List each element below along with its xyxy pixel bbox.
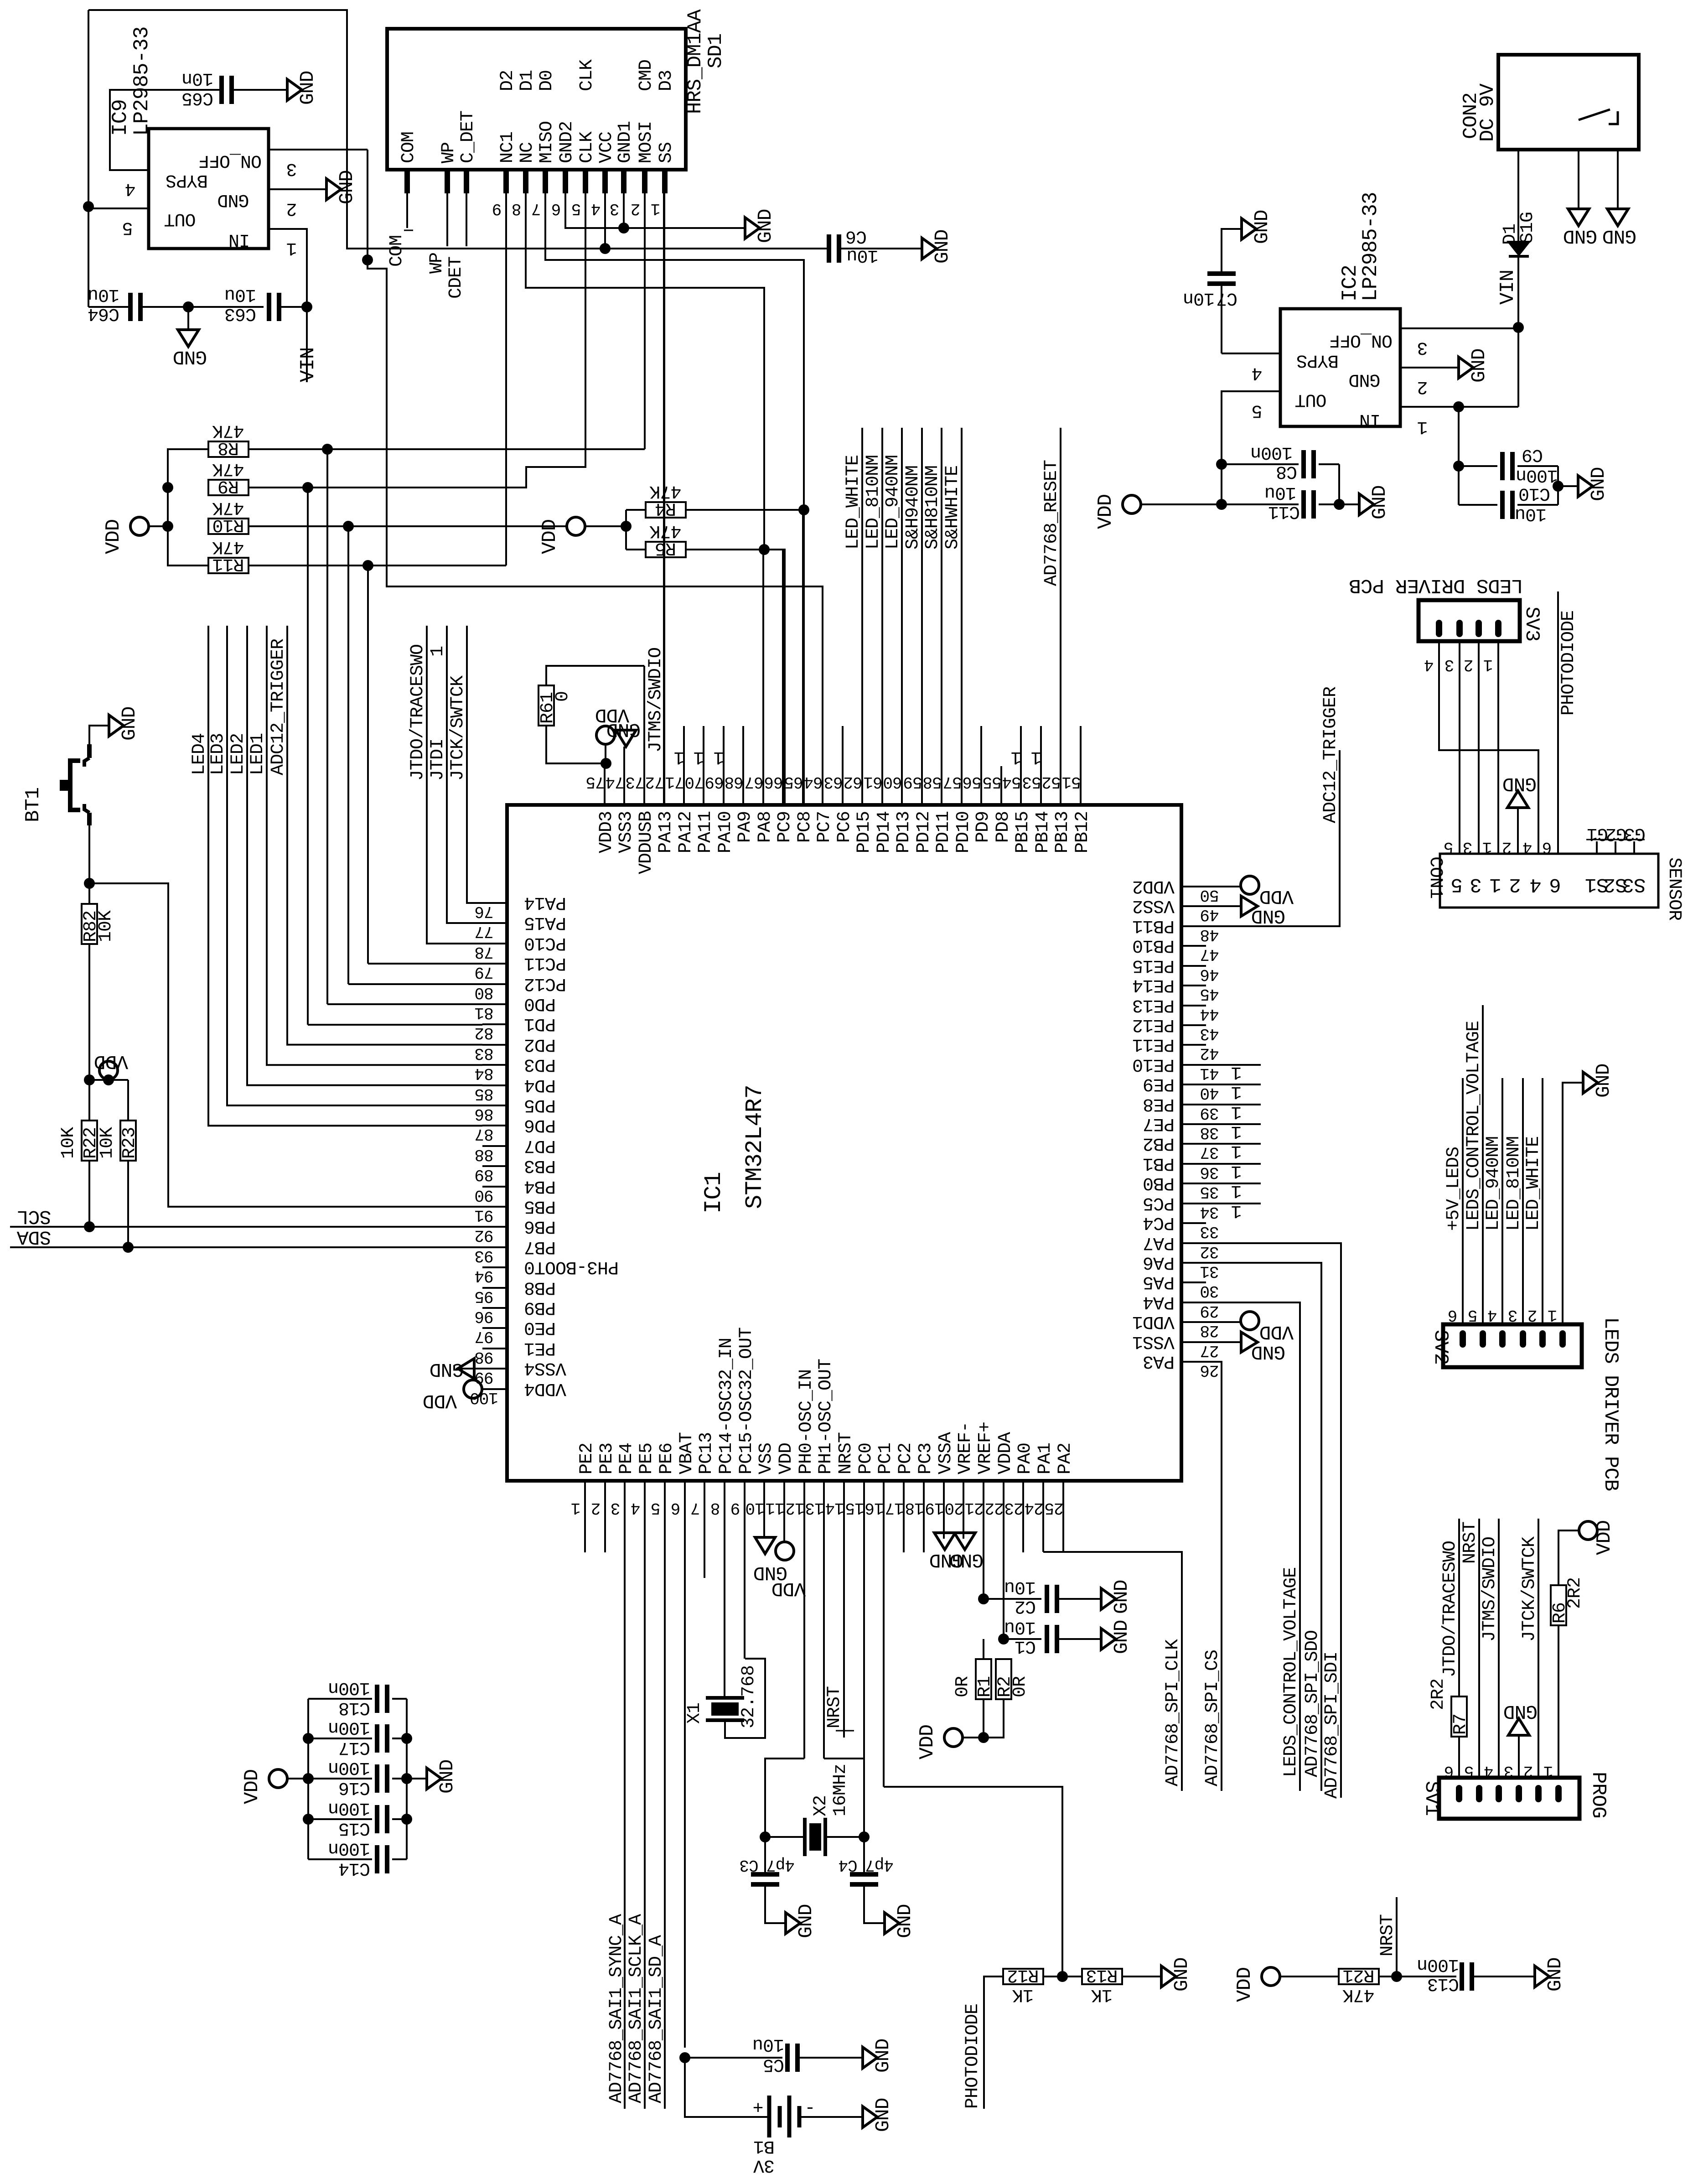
net label NRST (R21) — [1396, 1897, 1398, 1976]
wire IC1 pin 52 stub — [1060, 428, 1061, 805]
ground C14-C18 — [407, 1778, 427, 1779]
ground pin74 — [616, 730, 636, 747]
svg-text:PC13: PC13 — [696, 1432, 717, 1474]
resistor R5 47K — [626, 549, 646, 550]
svg-text:67: 67 — [745, 773, 763, 791]
svg-text:VDD: VDD — [1593, 1520, 1616, 1555]
wire IC1 pin 26 stub — [1181, 1361, 1206, 1363]
svg-text:VDD: VDD — [1260, 1321, 1294, 1343]
svg-text:4p7: 4p7 — [766, 1856, 795, 1874]
svg-text:30: 30 — [1200, 1281, 1219, 1300]
svg-text:PB2: PB2 — [1143, 1133, 1175, 1153]
resistor R11 47K — [208, 558, 249, 573]
svg-text:10u: 10u — [88, 284, 119, 305]
svg-text:16: 16 — [865, 1499, 884, 1517]
svg-text:1: 1 — [714, 747, 724, 767]
CON2 center pin wire — [1517, 150, 1519, 241]
svg-text:VDD: VDD — [1260, 885, 1294, 908]
svg-text:5: 5 — [122, 217, 133, 238]
svg-text:PD14: PD14 — [874, 811, 895, 853]
svg-text:56: 56 — [963, 773, 981, 791]
wire IC1 pin 36 stub — [1181, 1163, 1261, 1165]
junction R23/SDA — [123, 1242, 134, 1253]
svg-text:1: 1 — [1484, 655, 1493, 674]
svg-text:1: 1 — [1483, 838, 1492, 856]
IC9 pin 1 wire — [269, 229, 307, 307]
svg-text:VIN: VIN — [297, 348, 320, 382]
capacitor C64 10u — [88, 306, 130, 308]
wire IC1 pin 46 stub — [1181, 965, 1206, 967]
svg-text:88: 88 — [475, 1145, 493, 1164]
svg-text:10u: 10u — [1004, 1577, 1036, 1597]
wire IC1 pin 70 stub — [703, 726, 704, 805]
svg-text:60: 60 — [883, 773, 902, 791]
svg-text:D3: D3 — [656, 70, 677, 91]
power VDD pin11 — [776, 1542, 794, 1560]
wire IC1 pin 63 stub — [842, 726, 844, 805]
svg-text:C65: C65 — [182, 88, 213, 108]
ground VSS pin10 — [755, 1537, 775, 1554]
resistor R6 2R2 — [1551, 1585, 1566, 1625]
junction X2 right — [859, 1831, 870, 1842]
svg-text:47K: 47K — [212, 536, 244, 557]
svg-text:VDD4: VDD4 — [524, 1378, 566, 1399]
svg-text:63: 63 — [824, 773, 843, 791]
IC9 pin 5 wire — [88, 208, 149, 209]
svg-text:84: 84 — [475, 1064, 493, 1083]
svg-text:C14: C14 — [339, 1858, 370, 1878]
svg-text:5: 5 — [1444, 838, 1454, 856]
IC2 pin1 wire IN — [1400, 406, 1518, 408]
wire IC1 pin 28 stub — [1181, 1321, 1206, 1323]
svg-text:47K: 47K — [212, 420, 244, 441]
wire IC1 pin 65 stub — [802, 510, 804, 805]
svg-text:PC12: PC12 — [524, 973, 566, 994]
wire IC1 pin 82 stub — [482, 1023, 507, 1025]
svg-text:GND: GND — [1544, 1958, 1566, 1992]
CON2 jack symbol — [1579, 109, 1610, 120]
connector SV3 box — [1419, 600, 1520, 641]
svg-text:VSS3: VSS3 — [616, 811, 637, 853]
wire IC1 pin 8 stub — [724, 1481, 725, 1698]
wire PD0 column — [326, 449, 328, 1004]
pushbutton BT1 — [87, 744, 92, 758]
svg-text:GND: GND — [1592, 1064, 1615, 1098]
svg-text:72: 72 — [645, 773, 664, 791]
svg-text:62: 62 — [844, 773, 862, 791]
resistor R21 47K — [1339, 1969, 1379, 1984]
svg-text:LED2: LED2 — [228, 733, 249, 775]
wire IC1 pin 62 stub — [861, 428, 863, 805]
svg-text:3V: 3V — [753, 2155, 775, 2175]
svg-text:VSS: VSS — [756, 1443, 777, 1474]
svg-text:PC15-OSC32_OUT: PC15-OSC32_OUT — [736, 1328, 757, 1474]
wire IC1 pin 6 stub — [684, 1481, 686, 2048]
svg-text:2: 2 — [1417, 376, 1428, 397]
svg-text:7: 7 — [532, 199, 541, 218]
svg-text:2: 2 — [1464, 655, 1474, 674]
svg-text:1: 1 — [1231, 1121, 1242, 1141]
svg-text:11: 11 — [766, 1499, 784, 1517]
wire IC1 pin 10 stub — [763, 1481, 765, 1537]
svg-text:PE6: PE6 — [657, 1443, 677, 1474]
junction C bank right — [401, 1733, 412, 1744]
capacitor C6 10u — [827, 234, 831, 263]
svg-text:GND: GND — [1349, 369, 1380, 389]
svg-text:ON_OFF: ON_OFF — [199, 150, 262, 171]
svg-text:2R2: 2R2 — [1428, 1679, 1449, 1710]
svg-text:PC10: PC10 — [524, 933, 566, 953]
junction C bank — [303, 1733, 314, 1744]
svg-text:S&HWHITE: S&HWHITE — [942, 466, 963, 550]
junction R4/R5 tie — [621, 521, 632, 532]
wire IC1 pin 5 stub — [664, 1481, 666, 2109]
svg-text:C3: C3 — [740, 1856, 758, 1874]
connector CON2 DC 9V box — [1498, 55, 1639, 150]
wire IC1 pin 41 stub — [1181, 1064, 1261, 1066]
svg-text:71: 71 — [665, 773, 684, 791]
svg-text:PB0: PB0 — [1143, 1172, 1175, 1193]
svg-text:PA3: PA3 — [1143, 1351, 1175, 1371]
junction C9/C10 gnd — [1553, 481, 1564, 492]
svg-text:D0: D0 — [537, 70, 557, 91]
capacitor C63 10u — [188, 306, 264, 308]
wire IC1 pin 50 stub — [1181, 886, 1206, 887]
svg-text:10u: 10u — [1515, 503, 1547, 524]
svg-text:96: 96 — [475, 1307, 493, 1326]
ground IC9 pin2 — [326, 179, 341, 200]
svg-text:PD0: PD0 — [524, 993, 556, 1014]
wire IC1 pin 93 stub — [482, 1246, 507, 1248]
svg-text:42: 42 — [1200, 1044, 1219, 1063]
svg-text:VDD: VDD — [772, 1577, 806, 1600]
SD1 CDET stub label — [466, 193, 467, 246]
net label S&H810NM wire — [941, 428, 942, 805]
capacitor C3 4p7 — [764, 1837, 766, 1874]
svg-text:2: 2 — [591, 1499, 601, 1517]
svg-text:GND: GND — [894, 1904, 916, 1938]
resistor R12 1K — [1003, 1969, 1043, 1984]
svg-text:90: 90 — [475, 1186, 493, 1204]
capacitor C10 10u — [1459, 504, 1497, 506]
svg-text:3: 3 — [611, 1499, 621, 1517]
power VDD circle (C14-18) — [269, 1769, 287, 1788]
wire IC1 pin 32 stub — [1181, 1242, 1206, 1244]
svg-text:PC8: PC8 — [795, 811, 815, 843]
SV3 pad 2 — [1476, 620, 1482, 637]
ground C3 — [786, 1913, 800, 1934]
svg-text:C13: C13 — [1428, 1973, 1459, 1994]
wire R23 to SDA — [127, 1161, 129, 1247]
svg-text:0R: 0R — [953, 1676, 973, 1697]
wire VREF+ to R1 — [978, 1593, 989, 1604]
wire C14-C18 left bus — [307, 1699, 309, 1859]
svg-text:6: 6 — [671, 1499, 681, 1517]
svg-text:44: 44 — [1200, 1005, 1219, 1023]
wire X1 to PC15 — [725, 1659, 765, 1738]
SV2 pad 4 — [1499, 1330, 1506, 1348]
svg-text:PC5: PC5 — [1143, 1193, 1175, 1213]
wire IC1 pin 51 stub — [1080, 726, 1082, 805]
wire IC1 pin 16 stub — [883, 1481, 885, 1787]
wire VDDA to C1 — [998, 1634, 1009, 1644]
wire IC1 pin 13 stub — [823, 1481, 825, 1759]
svg-text:38: 38 — [1200, 1123, 1219, 1142]
svg-text:GND1: GND1 — [615, 121, 636, 163]
svg-text:C64: C64 — [88, 303, 119, 324]
SD1 pad CDET — [464, 170, 469, 193]
svg-text:70: 70 — [685, 773, 704, 791]
svg-text:39: 39 — [1200, 1104, 1219, 1122]
SV1 pad 3 — [1516, 1785, 1522, 1802]
svg-text:29: 29 — [1200, 1302, 1219, 1320]
svg-text:47: 47 — [1200, 945, 1219, 964]
svg-text:LP2985-33: LP2985-33 — [130, 27, 154, 136]
wire IC1 pin 11 stub — [783, 1481, 785, 1542]
resistor R4 47K — [626, 509, 646, 511]
svg-text:59: 59 — [903, 773, 922, 791]
junction C bank right — [401, 1773, 412, 1784]
svg-text:JTCK/SWTCK: JTCK/SWTCK — [1519, 1536, 1540, 1642]
svg-text:OUT: OUT — [164, 208, 196, 229]
resistor R1 0R — [976, 1659, 991, 1699]
power VDD4 pin100 — [464, 1380, 482, 1398]
svg-text:GND: GND — [950, 1549, 984, 1571]
svg-text:4: 4 — [1523, 838, 1533, 856]
svg-text:PA5: PA5 — [1143, 1271, 1175, 1292]
ground SD1 — [745, 218, 760, 239]
wire IC1 pin 86 stub — [482, 1105, 507, 1106]
wire IC1 pin 85 stub — [482, 1084, 507, 1086]
svg-text:GND: GND — [1564, 225, 1597, 247]
junction R9 line — [302, 482, 313, 493]
svg-text:61: 61 — [864, 773, 882, 791]
svg-text:10u: 10u — [1004, 1617, 1036, 1637]
svg-text:PB15: PB15 — [1013, 811, 1033, 853]
svg-text:PE11: PE11 — [1133, 1034, 1175, 1054]
svg-text:JTMS/SWDIO: JTMS/SWDIO — [1480, 1537, 1500, 1642]
svg-text:BYPS: BYPS — [166, 170, 208, 190]
svg-text:LEDS_CONTROL_VOLTAGE: LEDS_CONTROL_VOLTAGE — [1281, 1567, 1301, 1777]
svg-text:PA15: PA15 — [524, 912, 566, 933]
svg-text:VDD: VDD — [776, 1443, 797, 1474]
svg-text:PE10: PE10 — [1133, 1054, 1175, 1074]
svg-text:VDD: VDD — [241, 1769, 264, 1804]
svg-text:VDD: VDD — [916, 1725, 939, 1759]
junction C8 branch — [1216, 459, 1227, 470]
svg-text:1: 1 — [1544, 1762, 1553, 1780]
SV2 pad 2 — [1539, 1330, 1546, 1348]
svg-text:0: 0 — [553, 691, 573, 702]
svg-text:16MHz: 16MHz — [830, 1764, 851, 1816]
wire SV3.4 to CON1.4 — [1439, 641, 1538, 854]
svg-text:PC0: PC0 — [856, 1443, 876, 1474]
power VDD circle (SV1) — [1579, 1521, 1597, 1540]
svg-text:8: 8 — [512, 199, 522, 218]
junction C bank — [303, 1814, 314, 1825]
net label JTCK/SWTCK wire (SV1) — [1538, 1519, 1539, 1779]
net label LED_WHITE wire — [1542, 1078, 1543, 1326]
wire BT1 to PB5 — [88, 825, 90, 883]
wire IC1 pin 76 stub — [482, 902, 507, 904]
svg-text:GND: GND — [1252, 905, 1285, 927]
wire SV3.2 to CON1.3 — [1478, 641, 1480, 854]
wire R61 loop — [546, 726, 606, 763]
svg-text:32.768: 32.768 — [739, 1665, 759, 1728]
capacitor C13 100n — [1460, 1962, 1464, 1991]
svg-text:47K: 47K — [212, 458, 244, 479]
wire IC1 pin 100 stub — [482, 1388, 507, 1390]
SD1 pad 9 — [503, 170, 509, 193]
wire SD MOSI down to R8 line — [644, 193, 646, 449]
svg-text:C11: C11 — [1268, 501, 1300, 522]
svg-text:PA2: PA2 — [1055, 1443, 1076, 1474]
wire IC1 pin 87 stub — [482, 1125, 507, 1126]
svg-text:+5V_LEDS: +5V_LEDS — [1444, 1147, 1464, 1231]
svg-text:LED_810NM: LED_810NM — [863, 455, 884, 550]
wire IC1 pin 33 stub — [1181, 1222, 1206, 1224]
svg-text:GND: GND — [1368, 486, 1391, 519]
svg-text:75: 75 — [586, 773, 605, 791]
svg-text:PH1-OSC_OUT: PH1-OSC_OUT — [816, 1359, 836, 1474]
wire IC1 pin 27 stub — [1181, 1341, 1206, 1343]
wire SD NC1 down to R11 — [505, 193, 507, 565]
svg-text:GND: GND — [1170, 1958, 1193, 1992]
SD1 pad COM — [404, 170, 410, 193]
ground CON2 a — [1568, 209, 1589, 226]
svg-text:GND: GND — [118, 707, 140, 741]
svg-text:VDD3: VDD3 — [596, 811, 617, 853]
wire IC1 pin 7 stub — [704, 1481, 705, 1578]
svg-text:LED3: LED3 — [208, 733, 228, 775]
svg-text:6: 6 — [552, 199, 561, 218]
wire R9 right to CLK — [249, 487, 308, 488]
net label NRST wire (SV1) — [1478, 1519, 1480, 1779]
battery B1 3V — [685, 2058, 769, 2117]
svg-text:AD7768_SPI_SDI: AD7768_SPI_SDI — [1322, 1652, 1342, 1799]
svg-text:CDET: CDET — [446, 257, 466, 299]
svg-text:LED4: LED4 — [189, 733, 210, 775]
svg-text:PE15: PE15 — [1133, 955, 1175, 975]
svg-text:AD7768_RESET: AD7768_RESET — [1041, 460, 1062, 586]
SD1 COM stub label — [406, 193, 408, 228]
wire IC1 pin 91 stub — [482, 1206, 507, 1208]
wire R1/R2 to VDD — [983, 1699, 984, 1738]
svg-text:94: 94 — [475, 1266, 493, 1285]
capacitor C8 100n — [1222, 463, 1299, 465]
svg-text:6: 6 — [1448, 1306, 1458, 1324]
wire IC1 pin 31 stub — [1181, 1262, 1206, 1264]
wire IC1 pin 58 stub — [941, 428, 942, 805]
svg-text:PD3: PD3 — [524, 1054, 556, 1074]
svg-text:9: 9 — [492, 199, 502, 218]
svg-text:10K: 10K — [97, 1127, 118, 1159]
SV2 pad 3 — [1520, 1330, 1526, 1348]
wire R10 right to VDD2 circle — [249, 525, 567, 527]
wire PH1 to X2 right — [824, 1759, 864, 1837]
svg-text:-: - — [805, 2097, 815, 2118]
capacitor C15 100n — [308, 1818, 372, 1820]
IC2 pin5 OUT wire — [1222, 390, 1280, 392]
svg-text:CLK: CLK — [577, 59, 597, 91]
wire PB11 to ADC12_TRIGGER — [1181, 750, 1340, 926]
svg-text:PC4: PC4 — [1143, 1212, 1175, 1233]
svg-text:97: 97 — [475, 1327, 493, 1346]
resistor R13 1K — [1082, 1969, 1122, 1984]
crystal X1 32.768 — [706, 1696, 744, 1700]
svg-text:GND: GND — [795, 1904, 817, 1938]
SV3 pad 1 — [1495, 620, 1501, 637]
wire IC1 pin 44 stub — [1181, 1005, 1206, 1006]
svg-text:PA12: PA12 — [676, 811, 696, 853]
wire SD MISO to R4 line — [545, 193, 804, 805]
svg-text:PC6: PC6 — [834, 811, 855, 843]
net label LED_940NM wire — [901, 428, 903, 805]
svg-text:LEDS_CONTROL_VOLTAGE: LEDS_CONTROL_VOLTAGE — [1464, 1021, 1484, 1231]
wire IC1 pin 20 stub — [963, 1481, 964, 1539]
svg-text:4: 4 — [1484, 1762, 1494, 1780]
SD1 pad 7 — [543, 170, 548, 193]
power VDD2 pin50 — [1181, 886, 1241, 887]
ground C8/C11 — [1359, 494, 1374, 515]
wire IC1 pin 49 stub — [1181, 905, 1206, 907]
svg-text:OUT: OUT — [1295, 389, 1326, 410]
wire IC1 pin 73 stub — [643, 666, 645, 805]
svg-text:C10: C10 — [1519, 483, 1550, 503]
svg-text:GND: GND — [296, 71, 319, 105]
SD1 pad WP — [445, 170, 450, 193]
SV1 pad 5 — [1476, 1785, 1482, 1802]
svg-text:10n: 10n — [182, 68, 213, 88]
wire IC1 pin 15 stub — [863, 1481, 865, 1837]
svg-text:AD7768_SPI_CS: AD7768_SPI_CS — [1202, 1650, 1223, 1786]
wire IC1 pin 14 stub — [843, 1481, 845, 1738]
junction C bank — [303, 1773, 314, 1784]
connector SD1 HRS_DM1AA box — [387, 29, 686, 170]
crystal X2 16MHz — [803, 1818, 807, 1856]
wire R5 right to NC column — [686, 549, 764, 550]
svg-text:34: 34 — [1200, 1203, 1219, 1221]
svg-text:3: 3 — [1508, 1306, 1518, 1324]
connector SV2 box — [1443, 1324, 1582, 1367]
wire R4 right to MISO column — [686, 509, 804, 511]
svg-text:33: 33 — [1200, 1222, 1219, 1241]
svg-text:93: 93 — [475, 1246, 493, 1265]
svg-text:1: 1 — [428, 646, 448, 657]
svg-text:LED_940NM: LED_940NM — [1483, 1136, 1504, 1231]
svg-text:PB14: PB14 — [1033, 811, 1053, 853]
svg-text:47K: 47K — [212, 497, 244, 518]
svg-text:IN: IN — [1360, 409, 1381, 430]
net label G3 stub — [1633, 841, 1635, 854]
SV3 pad 4 — [1436, 620, 1442, 637]
wire PH0 to X2 left — [765, 1759, 805, 1837]
svg-text:PD15: PD15 — [854, 811, 875, 853]
svg-text:14: 14 — [825, 1499, 844, 1517]
svg-text:68: 68 — [725, 773, 743, 791]
svg-text:GND: GND — [1110, 1620, 1133, 1654]
wire SV3.1 to CON1.1 — [1497, 641, 1499, 854]
wire IC1 pin 29 stub — [1181, 1302, 1206, 1303]
svg-text:SDA: SDA — [17, 1226, 52, 1248]
svg-text:PE12: PE12 — [1133, 1014, 1175, 1035]
svg-text:28: 28 — [1200, 1321, 1219, 1340]
wire IC1 pin 78 stub — [482, 943, 507, 944]
wire IC1 pin 77 stub — [482, 922, 507, 924]
svg-text:7: 7 — [691, 1499, 700, 1517]
svg-text:2R2: 2R2 — [1565, 1577, 1585, 1609]
svg-text:79: 79 — [475, 963, 493, 981]
